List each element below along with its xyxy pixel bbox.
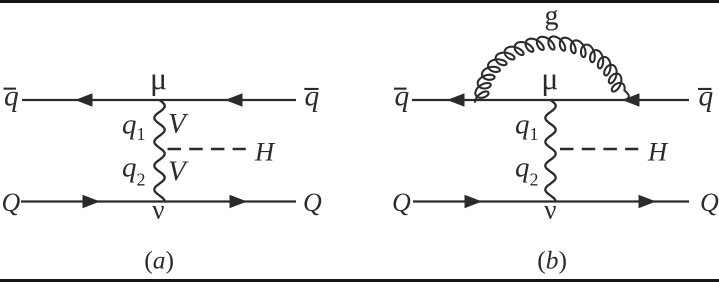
svg-text:q1: q1 [515, 109, 539, 145]
arrowhead on top line right (points left) [225, 93, 243, 106]
V boson wavy propagator (a) [154, 100, 164, 202]
svg-text:(a): (a) [144, 246, 174, 275]
arrowhead on top line right (points left) [622, 93, 640, 106]
arrowhead on bottom line right (points right) [230, 195, 248, 208]
V boson wavy propagator (b) [545, 100, 555, 202]
svg-text:Q: Q [303, 188, 322, 217]
svg-text:q: q [305, 80, 320, 112]
svg-text:q: q [699, 80, 714, 112]
svg-text:g: g [545, 1, 559, 32]
antiquark line (top fermion line, diagram b) [412, 99, 689, 101]
svg-text:Q: Q [700, 188, 719, 217]
antiquark line (top fermion line, diagram a) [22, 99, 296, 101]
bottom border bar [0, 279, 719, 282]
label qbar right (b) [698, 80, 714, 112]
arrowhead on bottom line right (points right) [639, 195, 657, 208]
label qbar left (b) [394, 80, 410, 112]
svg-text:q: q [4, 80, 19, 112]
label qbar right (a) [304, 80, 319, 112]
svg-text:H: H [647, 137, 669, 167]
svg-text:Q: Q [2, 188, 21, 217]
arrowhead on top line left (points left) [447, 93, 465, 106]
svg-text:V: V [168, 156, 189, 188]
svg-text:μ: μ [541, 60, 558, 96]
svg-text:q2: q2 [122, 152, 146, 190]
top border bar [0, 0, 719, 3]
svg-text:q2: q2 [515, 152, 539, 190]
svg-text:q: q [395, 80, 410, 112]
svg-text:q1: q1 [122, 109, 146, 145]
arrowhead on bottom line left (points right) [465, 195, 483, 208]
arrowhead on top line left (points left) [75, 93, 93, 106]
svg-text:(b): (b) [537, 246, 567, 275]
Higgs dashed line (a) [168, 148, 246, 151]
quark line (bottom fermion line, diagram b) [413, 200, 689, 202]
arrowhead on bottom line left (points right) [83, 195, 101, 208]
quark line (bottom fermion line, diagram a) [21, 200, 296, 202]
svg-text:μ: μ [150, 60, 167, 96]
Higgs dashed line (b) [560, 148, 638, 151]
label qbar left (a) [4, 80, 20, 112]
svg-text:H: H [254, 137, 276, 167]
gluon loop arc over top line [475, 36, 629, 102]
svg-text:V: V [168, 108, 189, 140]
svg-text:Q: Q [392, 188, 411, 217]
